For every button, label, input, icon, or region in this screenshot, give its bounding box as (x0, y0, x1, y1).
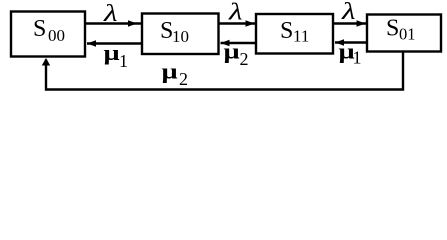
svg-text:λ: λ (341, 0, 356, 25)
svg-text:μ: μ (224, 38, 241, 63)
svg-text:λ: λ (103, 0, 118, 27)
svg-text:10: 10 (172, 27, 189, 46)
svg-text:00: 00 (48, 26, 65, 45)
svg-text:2: 2 (240, 49, 249, 69)
svg-text:S: S (33, 16, 46, 42)
svg-text:μ: μ (162, 58, 179, 83)
svg-text:1: 1 (353, 48, 362, 68)
svg-text:S: S (280, 18, 293, 44)
svg-text:11: 11 (293, 27, 309, 46)
svg-text:2: 2 (179, 69, 188, 89)
svg-text:S: S (386, 16, 399, 42)
svg-text:01: 01 (399, 25, 416, 44)
svg-text:λ: λ (228, 0, 243, 26)
svg-text:1: 1 (119, 51, 128, 71)
svg-text:μ: μ (104, 40, 121, 65)
